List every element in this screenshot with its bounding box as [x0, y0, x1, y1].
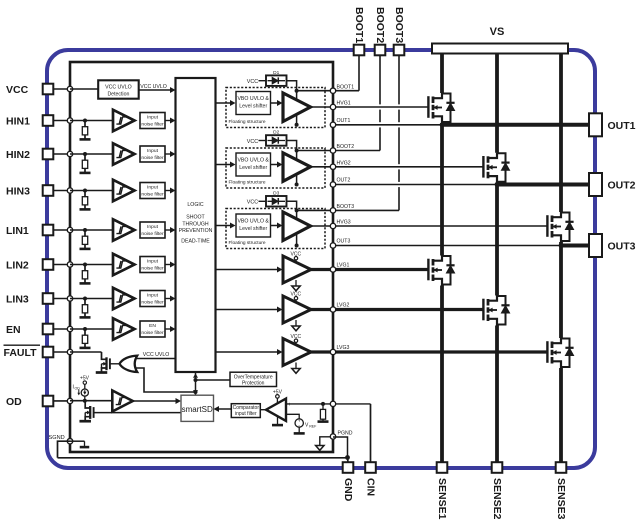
pin HIN2: [43, 149, 54, 160]
wire OUT3 to Q3L drain: [559, 246, 563, 339]
resistor EN pull-down with ground: [83, 327, 87, 331]
wire VCC UVLO output: [139, 89, 172, 91]
svg-text:LIN2: LIN2: [6, 260, 29, 272]
schmitt trigger OD: [112, 391, 133, 412]
wire BOOT2 horizontal: [297, 150, 380, 152]
block LOGIC shoot-through prevention dead-time: [176, 78, 216, 372]
svg-text:+5V: +5V: [80, 375, 90, 381]
svg-text:Input: Input: [147, 259, 159, 265]
pin LIN1: [43, 225, 54, 236]
wire OUT2 to Q2L drain: [495, 185, 499, 296]
node LVG3 circle: [330, 349, 335, 354]
wire SGND to bus: [58, 441, 71, 458]
wire LIN3 node to schmitt: [70, 298, 113, 300]
svg-text:smartSD: smartSD: [182, 405, 213, 414]
power VCC terminal LS3: [294, 339, 297, 342]
svg-text:Floating structure: Floating structure: [229, 240, 266, 246]
block smartSD: [181, 395, 214, 421]
pin HIN3: [43, 185, 54, 196]
op-amp low-side driver 2: [283, 296, 311, 323]
junction OUT1 rail dot: [440, 122, 445, 127]
wire HIN1 pin to node: [53, 120, 70, 122]
svg-text:VBO UVLO &: VBO UVLO &: [237, 96, 269, 102]
svg-text:noise filter: noise filter: [141, 231, 164, 237]
node FAULT boundary circle: [67, 349, 72, 354]
svg-text:HIN1: HIN1: [6, 116, 30, 128]
svg-text:SHOOT: SHOOT: [186, 215, 205, 221]
svg-text:VBO UVLO &: VBO UVLO &: [237, 158, 269, 164]
block Comparator input filter: [231, 404, 260, 418]
wire LVG3: [310, 350, 547, 353]
wire VBO3 to driver: [271, 225, 279, 227]
node OUT1 circle: [330, 122, 335, 127]
wire EN pin to node: [53, 328, 70, 330]
wire HIN1 node to schmitt: [70, 120, 113, 122]
pin OUT2 (right): [589, 173, 602, 196]
node OD boundary circle: [67, 398, 72, 403]
block LIN1 noise filter: [140, 222, 165, 238]
diode D1 box: [266, 75, 287, 86]
wire logic to LS driver 2: [216, 309, 279, 311]
junction GND-node dot: [345, 455, 350, 460]
wire VBO1 to driver: [271, 102, 279, 104]
wire VCC pin to node: [53, 88, 70, 90]
wire OUT1 to Q1L drain: [440, 125, 444, 256]
transistor Q1L low-side MOSFET: [427, 259, 429, 281]
pin BOOT1 (top): [354, 45, 365, 56]
svg-text:VCC: VCC: [247, 79, 258, 85]
op-amp low-side driver 3: [283, 339, 311, 366]
transistor Q1H high-side MOSFET: [427, 96, 429, 118]
wire OD pin to node: [53, 400, 70, 402]
pin CIN (bottom): [365, 462, 376, 473]
wire OR input VCC UVLO: [135, 358, 176, 360]
wire comparator plus to CIN: [286, 403, 371, 405]
node OUT2 circle: [330, 182, 335, 187]
resistor CIN filter: [322, 404, 324, 410]
op-amp high-side driver 1: [283, 93, 311, 122]
wire comparator to filter: [260, 409, 266, 411]
wire signal-ground bus: [58, 457, 348, 459]
wire logic to VBO1: [216, 102, 232, 104]
svg-text:SENSE3: SENSE3: [555, 478, 567, 520]
wire VS rail to Q3H drain: [559, 54, 563, 213]
wire OUT1 power line: [333, 124, 442, 126]
svg-text:DEAD-TIME: DEAD-TIME: [181, 239, 210, 245]
wire BOOT3 horizontal: [297, 209, 399, 211]
wire BOOT1 horizontal: [297, 90, 359, 92]
node VCC boundary circle: [67, 86, 72, 91]
op-amp current comparator: [266, 399, 286, 421]
svg-text:VBO UVLO &: VBO UVLO &: [237, 219, 269, 225]
svg-text:Input: Input: [147, 224, 159, 230]
wire driver2 to OUT2 rail: [296, 174, 298, 185]
node LVG2 circle: [330, 307, 335, 312]
ground PGND: [320, 437, 330, 446]
wire D1 to bootstrap node: [286, 81, 297, 100]
svg-text:VCC UVLO: VCC UVLO: [105, 85, 132, 91]
junction BOOT1 dot: [295, 89, 299, 93]
wire driver3 to OUT3 rail: [296, 233, 298, 245]
wire FAULT gate: [110, 363, 120, 365]
source VREF reference: [295, 419, 303, 427]
svg-text:OUT3: OUT3: [608, 241, 636, 253]
pin SENSE3 (bottom): [556, 462, 567, 473]
svg-text:OUT2: OUT2: [337, 178, 351, 184]
resistor HIN2 pull-down with ground: [83, 152, 87, 156]
schmitt trigger HIN2: [113, 143, 135, 165]
svg-text:THROUGH: THROUGH: [182, 222, 208, 228]
ground SGND internal: [70, 440, 85, 442]
block HIN2 noise filter: [140, 146, 165, 162]
svg-text:HVG3: HVG3: [337, 220, 351, 226]
op-amp high-side driver 2: [283, 153, 311, 182]
svg-text:LIN3: LIN3: [6, 294, 29, 306]
wire LVG2: [310, 308, 483, 311]
svg-text:LVG2: LVG2: [337, 303, 350, 309]
block VCC UVLO Detection: [98, 80, 139, 98]
diode D2 box: [266, 135, 287, 146]
wire OUT3 power line: [333, 245, 561, 247]
svg-text:D2: D2: [273, 130, 279, 136]
svg-text:Input: Input: [147, 293, 159, 299]
svg-text:BOOT1: BOOT1: [353, 7, 365, 43]
svg-text:FAULT: FAULT: [4, 347, 38, 359]
svg-text:Protection: Protection: [242, 381, 265, 387]
junction OT-net dot: [194, 378, 198, 382]
wire HIN2 filter to logic: [166, 153, 173, 155]
svg-text:BOOT2: BOOT2: [337, 144, 355, 150]
pin VCC: [43, 84, 54, 95]
schmitt trigger LIN1: [113, 219, 135, 241]
svg-text:LOGIC: LOGIC: [187, 202, 203, 208]
node HVG1 circle: [330, 104, 335, 109]
svg-text:VCC UVLO: VCC UVLO: [143, 352, 170, 358]
wire BOOT1 vertical: [358, 55, 360, 90]
diode D3 box: [266, 196, 287, 207]
wire HIN1 filter to logic: [166, 120, 173, 122]
node BOOT3 circle: [330, 208, 335, 213]
wire OD node to schmitt: [70, 400, 112, 402]
wire FAULT pin to node: [53, 351, 70, 353]
node BOOT2 circle: [330, 148, 335, 153]
pin OUT1 (right): [589, 113, 602, 136]
wire comparator minus to VREF: [286, 414, 299, 418]
svg-text:SGND: SGND: [49, 435, 65, 441]
block VBO UVLO level shifter 2: [236, 153, 271, 176]
current source IOD: [83, 399, 87, 403]
svg-text:EN: EN: [6, 324, 21, 336]
svg-text:CIN: CIN: [364, 478, 376, 496]
svg-text:noise filter: noise filter: [141, 299, 164, 305]
junction driver1-out dot: [295, 123, 299, 127]
schmitt trigger LIN2: [113, 254, 135, 276]
svg-text:Floating structure: Floating structure: [229, 119, 266, 125]
node CIN boundary circle: [330, 401, 335, 406]
wire logic-smartSD vertical: [195, 372, 197, 395]
wire driver1 to OUT1 rail: [296, 114, 298, 125]
transistor Q2L low-side MOSFET: [482, 299, 484, 321]
block HIN3 noise filter: [140, 183, 165, 199]
wire VCC node to UVLO block: [70, 88, 99, 90]
transistor Q3H high-side MOSFET: [546, 215, 548, 237]
wire Q1L source to SENSE1: [440, 286, 444, 463]
svg-text:Level shifter: Level shifter: [239, 165, 267, 171]
wire LIN2 filter to logic: [166, 264, 173, 266]
schmitt trigger HIN3: [113, 180, 135, 202]
wire Q3L source to SENSE3: [559, 368, 563, 462]
wire LVG1: [310, 268, 428, 271]
wire logic to VBO2: [216, 164, 232, 166]
wire OR input from smartSD net: [135, 368, 196, 392]
node LVG1 circle: [330, 267, 335, 272]
svg-text:Input: Input: [147, 148, 159, 154]
node BOOT1 circle: [330, 88, 335, 93]
junction CIN-resistor dot: [321, 402, 325, 406]
svg-text:D1: D1: [273, 70, 279, 76]
wire HIN3 filter to logic: [166, 190, 173, 192]
svg-text:VCC: VCC: [6, 84, 29, 96]
pin HIN1: [43, 115, 54, 126]
svg-text:Floating structure: Floating structure: [229, 179, 266, 185]
power VCC terminal LS2: [294, 297, 297, 300]
node HIN2 boundary circle: [67, 151, 72, 156]
pin BOOT3 (top): [394, 45, 405, 56]
resistor LIN2 pull-down with ground: [83, 263, 87, 267]
transistor Q2H high-side MOSFET: [482, 156, 484, 178]
wire VS rail to Q1H drain: [440, 54, 444, 94]
svg-text:SENSE1: SENSE1: [436, 478, 448, 520]
svg-text:REF: REF: [309, 425, 317, 429]
svg-text:Level shifter: Level shifter: [239, 104, 267, 110]
svg-text:-: -: [288, 413, 290, 419]
svg-text:VCC UVLO: VCC UVLO: [140, 84, 167, 90]
wire VBO2 to driver: [271, 164, 279, 166]
svg-text:BOOT1: BOOT1: [337, 84, 355, 90]
pin EN: [43, 324, 54, 335]
junction BOOT2 dot: [295, 149, 299, 153]
transistor Q3L low-side MOSFET: [546, 341, 548, 363]
svg-text:LVG3: LVG3: [337, 345, 350, 351]
ground comparator: [277, 417, 279, 425]
node LIN1 boundary circle: [67, 227, 72, 232]
svg-text:VCC: VCC: [247, 200, 258, 206]
wire BOOT3 vertical: [398, 55, 400, 104]
block VBO UVLO level shifter 1: [236, 92, 271, 115]
svg-text:LVG1: LVG1: [337, 263, 350, 269]
gate OR fault combiner: [120, 356, 138, 372]
svg-text:Input: Input: [147, 185, 159, 191]
floating structure 2 dashed box: [226, 148, 325, 188]
block LIN2 noise filter: [140, 257, 165, 273]
ground LS driver 1: [295, 280, 297, 286]
node HVG2 circle: [330, 164, 335, 169]
floating structure 1 dashed box: [226, 88, 325, 128]
node HIN1 boundary circle: [67, 118, 72, 123]
svg-text:HIN3: HIN3: [6, 186, 30, 198]
svg-text:HIN2: HIN2: [6, 149, 30, 161]
wire EN node to schmitt: [70, 328, 113, 330]
block LIN3 noise filter: [140, 291, 165, 307]
wire HIN2 pin to node: [53, 153, 70, 155]
wire LIN2 node to schmitt: [70, 264, 113, 266]
svg-text:VCC: VCC: [247, 139, 258, 145]
node OUT3 circle: [330, 243, 335, 248]
svg-text:PGND: PGND: [338, 431, 353, 437]
pin OD: [43, 396, 54, 407]
pin GND (bottom): [343, 462, 354, 473]
node LIN3 boundary circle: [67, 296, 72, 301]
wire Q2L source to SENSE2: [495, 326, 499, 463]
junction smartSD-net dot: [194, 390, 198, 394]
wire D2 to bootstrap node: [286, 141, 297, 160]
schmitt trigger EN: [113, 318, 135, 340]
floating structure 3 dashed box: [226, 209, 325, 249]
svg-text:LIN1: LIN1: [6, 225, 29, 237]
pin SENSE1 (bottom): [437, 462, 448, 473]
svg-text:HVG1: HVG1: [337, 101, 351, 107]
svg-text:OverTemperature: OverTemperature: [234, 374, 273, 380]
node EN boundary circle: [67, 326, 72, 331]
wire logic to VBO3: [216, 225, 232, 227]
svg-text:EN: EN: [149, 323, 156, 329]
schmitt trigger LIN3: [113, 288, 135, 310]
block HIN1 noise filter: [140, 113, 165, 129]
svg-text:noise filter: noise filter: [141, 121, 164, 127]
wire D3 to bootstrap node: [286, 201, 297, 219]
svg-text:noise filter: noise filter: [141, 265, 164, 271]
svg-text:PREVENTION: PREVENTION: [179, 228, 213, 234]
block EN noise filter: [140, 321, 165, 337]
wire Q2H source to OUT2: [495, 183, 499, 185]
node HVG3 circle: [330, 223, 335, 228]
svg-text:BOOT3: BOOT3: [337, 204, 355, 210]
resistor HIN1 pull-down with ground: [83, 119, 87, 123]
wire HVG1: [311, 106, 429, 108]
svg-text:OUT3: OUT3: [337, 239, 351, 245]
svg-text:OD: OD: [6, 396, 22, 408]
svg-text:GND: GND: [342, 478, 354, 502]
svg-text:Level shifter: Level shifter: [239, 226, 267, 232]
wire logic to LS driver 1: [216, 269, 279, 271]
wire BOOT2 vertical: [379, 55, 381, 104]
wire HIN3 node to schmitt: [70, 190, 113, 192]
wire Q1H source to OUT1: [440, 123, 444, 125]
wire PGND to GND pin: [333, 437, 348, 458]
wire EN filter to logic: [166, 328, 173, 330]
wire GND pin lead: [347, 458, 350, 463]
node HIN3 boundary circle: [67, 188, 72, 193]
resistor LIN1 pull-down with ground: [83, 228, 87, 232]
svg-text:OUT1: OUT1: [337, 118, 351, 124]
ground LS driver 3: [295, 363, 297, 369]
resistor LIN3 pull-down with ground: [83, 297, 87, 301]
svg-text:OUT2: OUT2: [608, 180, 636, 192]
wire LIN3 filter to logic: [166, 298, 173, 300]
wire OD schmitt to smartSD: [133, 400, 178, 402]
wire HVG3: [311, 225, 548, 227]
wire HVG2: [311, 166, 484, 168]
wire HIN2 node to schmitt: [70, 153, 113, 155]
svg-text:input filter: input filter: [235, 411, 257, 417]
ground LS driver 2: [295, 320, 297, 326]
junction driver2-out dot: [295, 183, 299, 187]
junction driver3-out dot: [295, 244, 299, 248]
wire OUT2 power line: [333, 184, 497, 186]
wire CIN vertical to pin: [370, 404, 372, 462]
svg-text:Input: Input: [147, 115, 159, 121]
svg-text:OUT1: OUT1: [608, 120, 636, 132]
wire filter to smartSD: [217, 408, 232, 410]
wire VS rail to Q2H drain: [495, 54, 499, 153]
ground VREF: [298, 427, 300, 433]
power VCC terminal LS1: [294, 257, 297, 260]
pin SENSE2 (bottom): [492, 462, 503, 473]
wire LIN1 node to schmitt: [70, 229, 113, 231]
wire LIN1 filter to logic: [166, 229, 173, 231]
junction OUT2 rail dot: [495, 182, 500, 187]
schmitt trigger HIN1: [113, 110, 135, 132]
pin FAULT: [43, 347, 54, 358]
node PGND circle: [330, 434, 335, 439]
svg-text:BOOT2: BOOT2: [374, 7, 386, 43]
svg-text:noise filter: noise filter: [141, 330, 164, 336]
node LIN2 boundary circle: [67, 262, 72, 267]
svg-text:noise filter: noise filter: [141, 155, 164, 161]
svg-text:+: +: [288, 402, 291, 408]
op-amp low-side driver 1: [283, 256, 311, 283]
junction OUT3 rail dot: [559, 243, 564, 248]
block VBO UVLO level shifter 3: [236, 214, 271, 237]
pin LIN3: [43, 293, 54, 304]
junction BOOT3 dot: [295, 208, 299, 212]
svg-text:HVG2: HVG2: [337, 160, 351, 166]
wire LIN3 pin to node: [53, 298, 70, 300]
block OverTemperature Protection: [196, 379, 231, 381]
wire logic to LS driver 3: [216, 351, 279, 353]
transistor OD pull-down NMOS: [85, 401, 90, 408]
svg-text:SENSE2: SENSE2: [491, 478, 503, 520]
transistor FAULT open-drain NMOS: [102, 352, 107, 359]
wire Q3H source to OUT3: [559, 242, 563, 246]
pin OUT3 (right): [589, 234, 602, 257]
svg-text:OD: OD: [75, 387, 81, 391]
svg-text:D3: D3: [273, 191, 279, 197]
svg-text:VS: VS: [490, 26, 505, 38]
svg-text:noise filter: noise filter: [141, 191, 164, 197]
IC package outline (blue rounded border): [47, 50, 595, 468]
wire LIN2 pin to node: [53, 264, 70, 266]
internal circuit boundary rectangle: [70, 62, 333, 452]
wire HIN3 pin to node: [53, 190, 70, 192]
wire LIN1 pin to node: [53, 229, 70, 231]
wire FAULT node to transistor: [70, 351, 102, 353]
VS supply bus bar: [432, 44, 568, 54]
svg-text:Detection: Detection: [107, 92, 129, 98]
pin LIN2: [43, 259, 54, 270]
svg-text:BOOT3: BOOT3: [393, 7, 405, 43]
resistor HIN3 pull-down with ground: [83, 189, 87, 193]
node SGND circle: [67, 439, 72, 444]
op-amp high-side driver 3: [283, 212, 311, 241]
pin BOOT2 (top): [375, 45, 386, 56]
wire OD NMOS gate from smartSD: [94, 412, 181, 414]
